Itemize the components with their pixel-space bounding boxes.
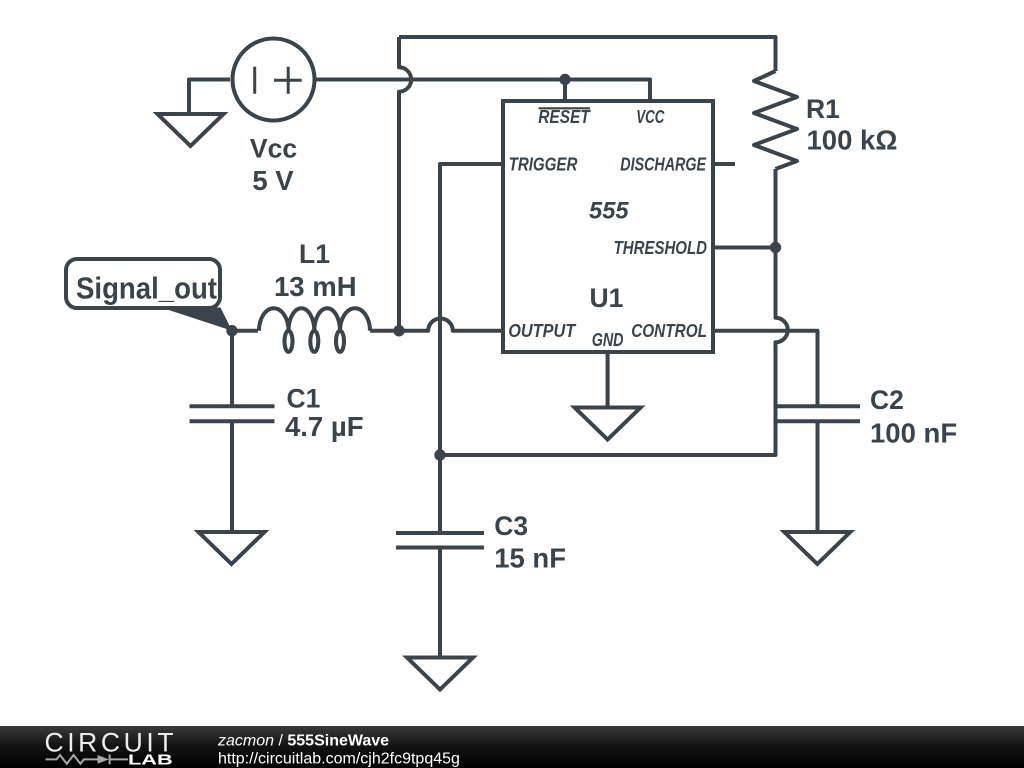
capacitor C1 xyxy=(190,406,275,421)
ground (C2) xyxy=(784,532,850,564)
capacitor C2 label 100 nF xyxy=(870,385,957,449)
svg-text:http://circuitlab.com/cjh2fc9t: http://circuitlab.com/cjh2fc9tpq45g xyxy=(218,751,460,768)
wire GND pin to ground xyxy=(606,352,610,408)
svg-text:Vcc: Vcc xyxy=(250,133,297,163)
node junction at RESET xyxy=(559,74,570,85)
resistor R1 xyxy=(754,71,797,169)
svg-text:C3: C3 xyxy=(494,511,528,541)
wire C1 to ground xyxy=(230,421,234,532)
wire vertical output net with hop over Vcc wire xyxy=(399,37,411,331)
wire C3 to ground xyxy=(438,548,442,658)
wire node to C3 xyxy=(438,455,442,533)
capacitor C3 label 15 nF xyxy=(494,511,566,574)
svg-text:GND: GND xyxy=(592,329,624,350)
svg-text:L1: L1 xyxy=(299,239,330,269)
svg-text:C1: C1 xyxy=(287,384,321,414)
node junction Signal_out xyxy=(226,325,237,336)
wire V1 minus to ground xyxy=(189,80,230,115)
svg-text:OUTPUT: OUTPUT xyxy=(508,320,576,341)
wire OUTPUT pin with hop over trigger wire xyxy=(399,318,503,330)
svg-text:THRESHOLD: THRESHOLD xyxy=(614,237,707,258)
capacitor C2 xyxy=(776,406,861,421)
wire C2 to ground xyxy=(816,421,820,532)
footer bar xyxy=(0,726,1024,768)
svg-text:DISCHARGE: DISCHARGE xyxy=(620,153,706,174)
svg-text:CONTROL: CONTROL xyxy=(631,320,707,341)
svg-text:555: 555 xyxy=(589,197,629,224)
wire DISCHARGE stub xyxy=(713,162,735,166)
wire CONTROL to C2 xyxy=(713,331,818,407)
net flag Signal_out xyxy=(66,259,232,331)
svg-text:U1: U1 xyxy=(590,283,624,313)
wire L1 to output xyxy=(370,329,399,333)
svg-text:100 kΩ: 100 kΩ xyxy=(807,125,898,156)
pin label RESET (with overline) xyxy=(538,106,591,127)
svg-text:LAB: LAB xyxy=(128,751,173,767)
wire node to C1 xyxy=(230,331,234,407)
svg-text:VCC: VCC xyxy=(636,106,665,127)
wire top loop (output net to R1 top) xyxy=(399,37,776,71)
wire RESET stub xyxy=(563,80,567,102)
svg-text:TRIGGER: TRIGGER xyxy=(509,153,578,174)
capacitor C1 label 4.7 uF xyxy=(285,384,364,442)
svg-text:Signal_out: Signal_out xyxy=(76,271,217,306)
wire V1 plus to RESET/VCC pins xyxy=(316,80,650,102)
voltage source V1 (Vcc 5V) xyxy=(233,39,315,121)
wire TRIGGER to C3 node xyxy=(440,164,503,455)
svg-text:13 mH: 13 mH xyxy=(274,271,357,302)
wire L1 to signal node xyxy=(232,329,258,333)
CircuitLab logo squiggle (resistor + diode) xyxy=(46,754,129,764)
wire R1 bottom to threshold xyxy=(774,169,778,248)
ground (C1) xyxy=(199,532,265,564)
capacitor C3 xyxy=(396,533,484,548)
wire THRESHOLD pin xyxy=(713,246,776,250)
node junction at output/L1 xyxy=(393,325,404,336)
svg-text:R1: R1 xyxy=(806,94,840,124)
wire threshold down with hop over control wire, to bottom run xyxy=(440,248,788,456)
resistor R1 label 100 kOhm xyxy=(806,94,897,156)
voltage source label Vcc 5 V xyxy=(250,133,297,196)
ground (V1) xyxy=(158,114,224,146)
svg-text:C2: C2 xyxy=(870,385,904,415)
ground (GND pin) xyxy=(575,408,641,440)
IC U1 555-timer body xyxy=(503,101,713,352)
svg-text:15 nF: 15 nF xyxy=(494,543,566,574)
svg-text:100 nF: 100 nF xyxy=(870,418,957,449)
ground (C3) xyxy=(407,658,473,690)
svg-text:5 V: 5 V xyxy=(252,165,294,196)
inductor L1 xyxy=(259,308,370,352)
svg-text:zacmon / 555SineWave: zacmon / 555SineWave xyxy=(217,733,389,750)
inductor L1 label 13 mH xyxy=(274,239,357,302)
node junction at C3 xyxy=(434,449,445,460)
svg-text:4.7 µF: 4.7 µF xyxy=(285,411,364,442)
node junction at threshold xyxy=(770,242,781,253)
